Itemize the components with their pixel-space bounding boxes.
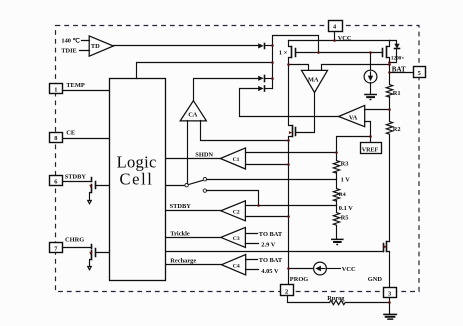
svg-text:C1: C1 (233, 157, 240, 163)
svg-text:R5: R5 (341, 215, 349, 222)
junction dot (288.7,65) (287, 63, 290, 66)
svg-text:TDIE: TDIE (61, 48, 77, 55)
wire diode bus (273, 36, 319, 89)
svg-text:CE: CE (66, 129, 75, 136)
wire pin7 to T2 (63, 247, 92, 249)
svg-text:C3: C3 (233, 236, 240, 242)
svg-text:Cell: Cell (120, 169, 154, 188)
svg-text:SHDN: SHDN (195, 152, 213, 159)
junction dot (288.6,268.5) (287, 267, 290, 270)
wire switch top contact to 1V tap (207, 179, 337, 181)
wire SHDN C1 output (167, 158, 221, 160)
transistor T2 (CHRG open-drain) (88, 245, 110, 270)
svg-text:STDBY: STDBY (65, 173, 87, 180)
svg-text:TD: TD (91, 43, 100, 50)
junction dot (370.7,52.1) (369, 51, 372, 54)
junction dot (389.9,302.9) (388, 301, 391, 304)
wire pin1 to logic (63, 90, 110, 92)
pin 6 STDBY (50, 176, 63, 186)
wire C1 bottom input to prog bus (246, 164, 289, 166)
svg-text:1: 1 (54, 87, 57, 94)
wire C2 top input 0.1V line (246, 205, 337, 207)
transistor T1 (STDBY open-drain) (88, 178, 110, 204)
wire M3 gate line (167, 251, 384, 253)
current source I2 (289, 262, 341, 275)
svg-text:VCC: VCC (342, 266, 356, 273)
svg-text:TEMP: TEMP (66, 82, 85, 89)
svg-text:R2: R2 (393, 126, 401, 133)
svg-text:TO BAT: TO BAT (259, 257, 283, 264)
svg-text:Trickle: Trickle (170, 230, 190, 237)
junction dot (288.6,164.2) (287, 163, 290, 166)
resistor R3 (333, 153, 339, 179)
svg-text:Rprog: Rprog (327, 295, 345, 302)
svg-text:CHRG: CHRG (65, 236, 84, 243)
current source I1 (364, 53, 377, 94)
svg-text:Recharge: Recharge (170, 257, 196, 264)
wire pin2 drop to Rprog (288, 296, 330, 303)
svg-text:MA: MA (308, 77, 319, 84)
svg-text:VREF: VREF (362, 147, 379, 153)
op-amp MA (302, 70, 328, 92)
wire VCC rail (289, 40, 390, 42)
wire CA right input to prog node (201, 121, 289, 141)
svg-text:C2: C2 (233, 210, 240, 216)
comparator C3 (221, 227, 246, 247)
transistor M2 sense (289, 65, 296, 141)
transistor M1200 PMOS (383, 41, 390, 65)
op-amp VA (339, 105, 365, 126)
wire MA output to M2 gate (296, 93, 315, 133)
wire VREF branch to chain top (337, 137, 371, 153)
pin 5 BAT (414, 67, 426, 78)
diode D1 (258, 43, 272, 48)
junction dot (389.7,110) (388, 108, 391, 111)
svg-text:STDBY: STDBY (170, 203, 192, 210)
svg-text:5: 5 (418, 70, 421, 77)
resistor Rprog (330, 300, 390, 304)
pin 2 PROG (281, 285, 294, 296)
wire pin4 riser (334, 32, 336, 41)
wire C2 bottom input to prog bus (246, 216, 289, 218)
diode D3 (258, 86, 272, 91)
svg-text:1 V: 1 V (341, 177, 351, 184)
svg-text:3: 3 (388, 291, 391, 298)
junction dot (318.2,52.1) (317, 51, 320, 54)
wire C2 output (167, 210, 221, 212)
junction dot (258.3,205.7) (257, 204, 260, 207)
pin 1 TEMP (50, 84, 63, 94)
Logic Cell block (110, 79, 166, 281)
svg-text:2.9 V: 2.9 V (261, 241, 275, 248)
wire logic top riser to diode bus (137, 63, 273, 79)
wire M1 drain rail to MA left input (289, 65, 309, 71)
transistor M1 1x PMOS (289, 41, 296, 65)
wire CA output up to diode D2 (194, 79, 259, 101)
ground G2 (331, 239, 344, 246)
comparator C2 (221, 201, 246, 221)
resistor R5 (333, 206, 339, 239)
svg-text:PROG: PROG (290, 276, 308, 283)
svg-text:R1: R1 (393, 90, 401, 97)
wire C1 top input to chain top (246, 152, 337, 154)
svg-text:140 ℃: 140 ℃ (61, 37, 79, 44)
svg-text:1 ×: 1 × (279, 50, 288, 57)
wire TD output (114, 45, 259, 47)
wire pin8 to logic (63, 138, 110, 140)
junction dot (288.6,216.2) (287, 215, 290, 218)
svg-text:0.1 V: 0.1 V (339, 205, 353, 212)
junction dot (389.7,62.5) (388, 61, 391, 64)
resistor R2 (386, 111, 392, 242)
junction dot (272.6,62) (271, 61, 274, 64)
svg-text:C4: C4 (233, 264, 240, 270)
wire TD input stubs (80, 41, 90, 51)
wire C4 output (167, 264, 222, 266)
ground G1 (364, 94, 377, 101)
junction dot (389.7,72.5) (388, 71, 391, 74)
box VREF (361, 143, 382, 154)
pin 3 GND (384, 288, 397, 298)
dashed boundary of IC (56, 26, 420, 292)
svg-text:8: 8 (54, 135, 57, 142)
wire M3 to pin3 (389, 252, 391, 288)
wire gate rail (296, 52, 383, 54)
svg-text:2: 2 (285, 288, 288, 295)
junction dot (389.7,65) (388, 63, 391, 66)
resistor R4 (333, 179, 339, 206)
diode D4 body diode (390, 41, 400, 63)
wire C4 input stubs (246, 260, 259, 270)
svg-text:R4: R4 (339, 192, 346, 198)
junction dot (336.9,152.8) (335, 151, 338, 154)
svg-text:R3: R3 (341, 161, 349, 168)
wire pin6 to T1 (63, 181, 92, 183)
wire VA minus to VREF (365, 122, 371, 143)
pin 7 CHRG (50, 243, 63, 253)
svg-text:CA: CA (188, 111, 198, 118)
wire C3 output (167, 237, 221, 239)
pin 4 VCC (329, 21, 343, 32)
ground G3 (383, 314, 397, 320)
junction dot (335,41) (333, 39, 336, 42)
svg-text:TO BAT: TO BAT (259, 231, 283, 238)
junction dot (370.4,136.3) (369, 135, 372, 138)
wire VA plus input to R1R2 (365, 109, 390, 111)
junction dot (288.6,140.3) (287, 139, 290, 142)
op-amp CA (180, 101, 206, 121)
wire PROG bus (288, 141, 290, 285)
junction dot (272.6,78.3) (271, 77, 274, 80)
switch SW (167, 178, 207, 193)
comparator TD (89, 36, 113, 56)
svg-text:GND: GND (368, 276, 383, 283)
svg-text:VA: VA (349, 114, 358, 121)
comparator C4 (222, 255, 246, 275)
wire pin3 ground riser (389, 298, 391, 314)
resistor R1 (386, 65, 392, 111)
comparator C1 (220, 148, 245, 169)
wire BAT rail to MA right input (322, 65, 390, 71)
wire CA left input down to switch pole (187, 121, 189, 184)
svg-text:1200×: 1200× (391, 56, 404, 62)
junction dot (272.6,45.9) (271, 44, 274, 47)
diode D2 (258, 76, 272, 82)
svg-text:4.05 V: 4.05 V (261, 268, 279, 275)
wire BAT to pin5 (390, 72, 414, 74)
wire switch bottom contact to 0.1V line (207, 191, 259, 206)
wire C3 input stubs (246, 234, 259, 244)
pin 8 CE (50, 133, 63, 143)
transistor M3 (384, 242, 390, 252)
wire VA output to D3 (240, 89, 339, 117)
